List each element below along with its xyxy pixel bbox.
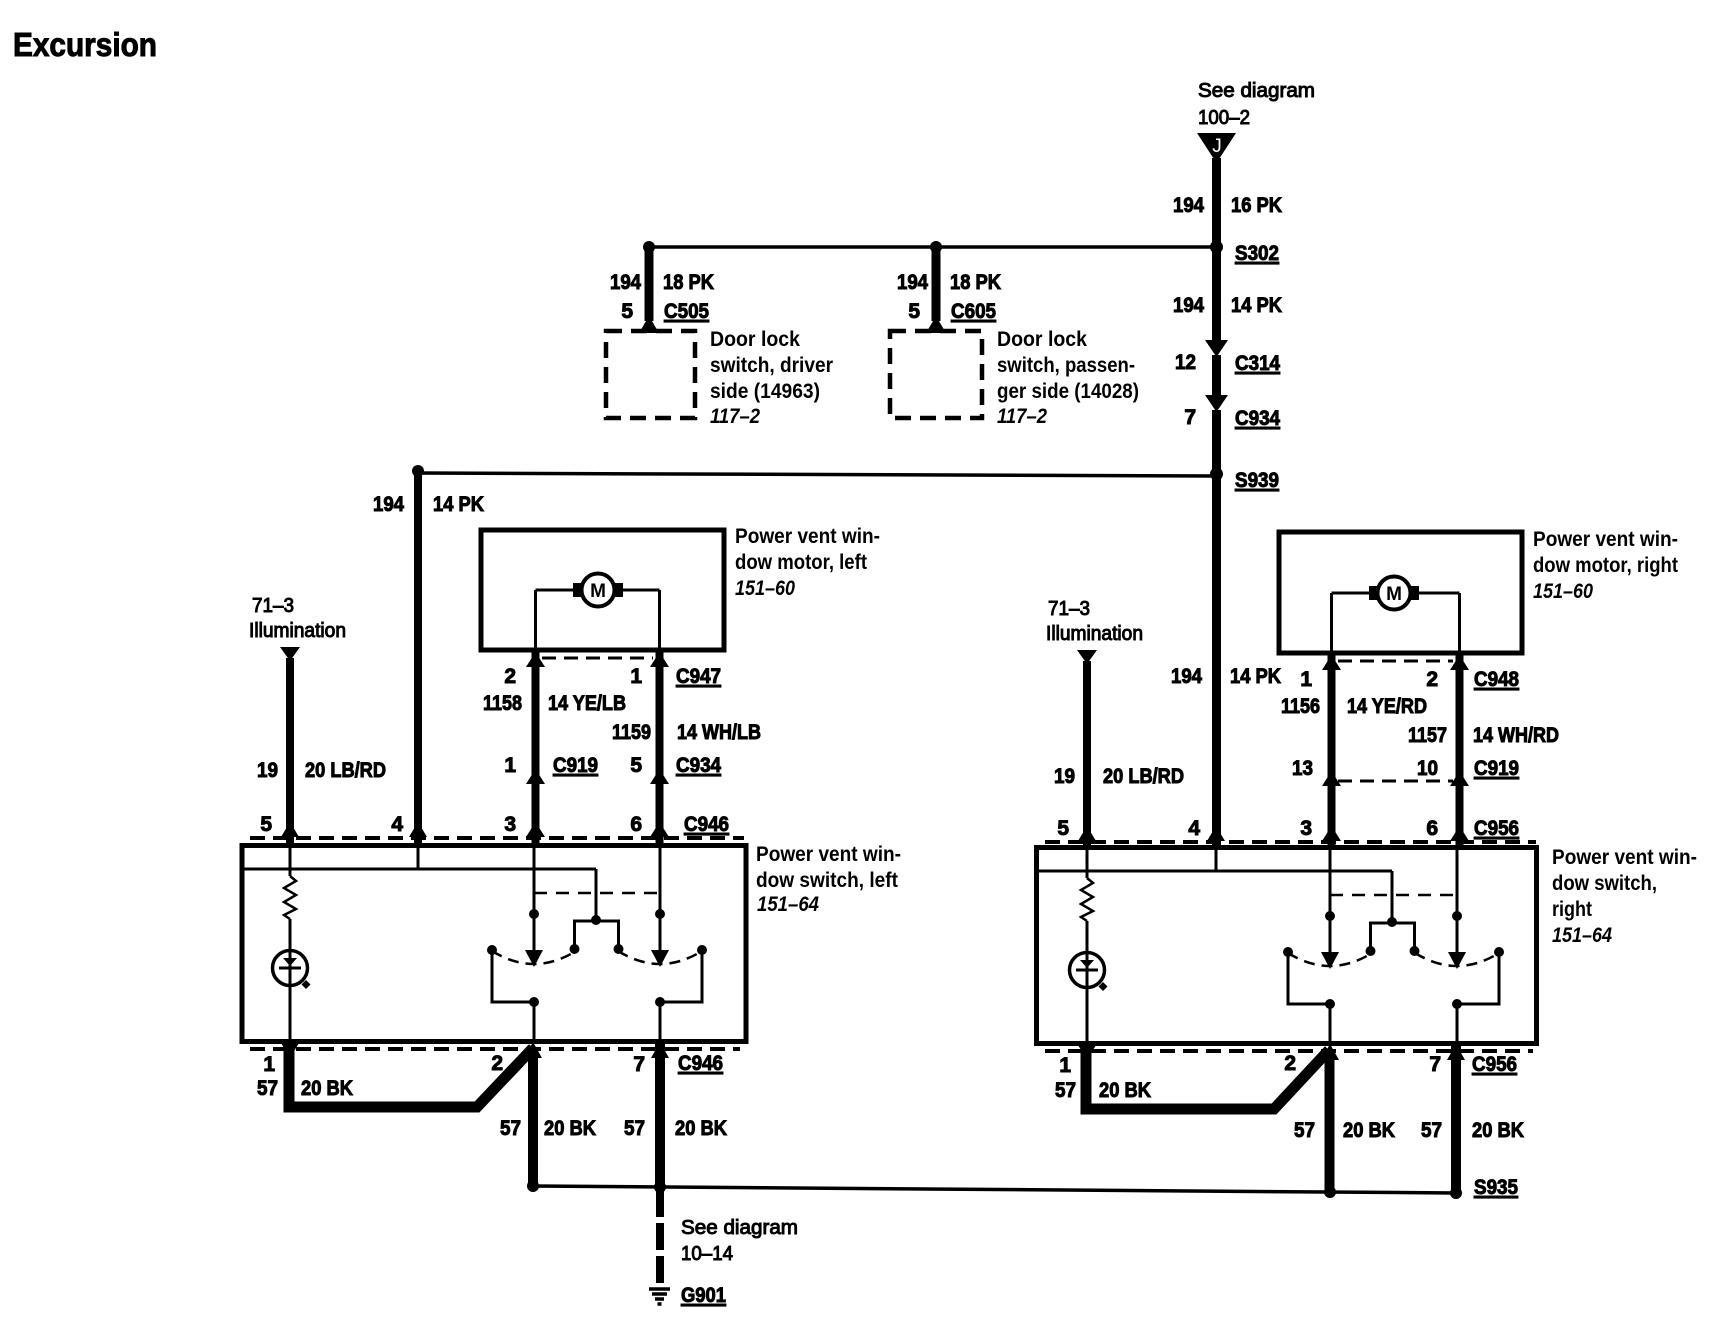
svg-text:20 BK: 20 BK <box>1099 1079 1151 1102</box>
svg-text:Power vent win-: Power vent win- <box>756 843 901 866</box>
svg-text:14 WH/RD: 14 WH/RD <box>1473 724 1559 747</box>
splice S939 <box>418 473 1216 476</box>
svg-text:57: 57 <box>1055 1079 1076 1102</box>
svg-text:20 LB/RD: 20 LB/RD <box>305 759 386 782</box>
svg-text:194: 194 <box>1173 194 1204 217</box>
mechanical link dashed <box>534 892 660 895</box>
svg-text:ger side (14028): ger side (14028) <box>997 380 1139 403</box>
wire trunk bottom to right switch pin 4 <box>1212 474 1221 849</box>
svg-text:18 PK: 18 PK <box>950 271 1001 294</box>
svg-text:194: 194 <box>1171 665 1202 688</box>
svg-text:dow motor, left: dow motor, left <box>735 551 867 574</box>
svg-text:151–64: 151–64 <box>757 893 819 916</box>
door lock switch, passenger side box <box>890 331 982 418</box>
svg-text:See diagram: See diagram <box>681 1217 798 1239</box>
svg-text:Power vent win-: Power vent win- <box>1552 846 1697 869</box>
power vent window switch, right box <box>1037 848 1537 1044</box>
svg-text:194: 194 <box>897 271 928 294</box>
wire 1159 motor left pin1 <box>656 650 664 845</box>
svg-text:57: 57 <box>500 1117 521 1140</box>
svg-text:1: 1 <box>1300 668 1312 691</box>
wire pin4 internal <box>244 868 596 871</box>
wire pin4 internal <box>1037 870 1392 873</box>
svg-text:117–2: 117–2 <box>710 405 760 428</box>
resistor left <box>289 843 292 876</box>
wire to G901 dashed <box>656 1190 664 1286</box>
svg-text:dow switch, left: dow switch, left <box>756 869 898 892</box>
svg-text:57: 57 <box>1294 1119 1315 1142</box>
svg-text:M: M <box>1386 584 1402 605</box>
motor M left <box>536 574 660 651</box>
connector C946 bottom row <box>250 1047 740 1051</box>
svg-text:side (14963): side (14963) <box>710 380 820 403</box>
svg-text:S939: S939 <box>1235 469 1279 492</box>
lamp right <box>1070 953 1105 988</box>
svg-text:1159: 1159 <box>612 721 651 744</box>
svg-text:switch, driver: switch, driver <box>710 354 833 377</box>
svg-text:3: 3 <box>504 813 516 836</box>
svg-text:14 PK: 14 PK <box>1230 665 1281 688</box>
wire 194 14 PK trunk mid <box>1212 247 1221 340</box>
switch contact arc left <box>1288 953 1372 966</box>
svg-text:14 PK: 14 PK <box>1231 294 1282 317</box>
wire pin6 arm <box>1456 845 1459 952</box>
svg-text:20 LB/RD: 20 LB/RD <box>1103 765 1184 788</box>
power vent window motor, right box <box>1279 532 1522 653</box>
svg-text:5: 5 <box>621 300 633 323</box>
svg-text:C314: C314 <box>1235 352 1280 375</box>
svg-text:dow motor, right: dow motor, right <box>1533 554 1678 577</box>
switch contact arc right <box>618 951 702 964</box>
svg-text:2: 2 <box>504 665 516 688</box>
wire 1158 motor left pin2 <box>532 650 540 845</box>
svg-text:20 BK: 20 BK <box>301 1077 353 1100</box>
svg-text:1158: 1158 <box>483 692 522 715</box>
connector C947 <box>526 652 545 667</box>
svg-text:Excursion: Excursion <box>13 26 157 63</box>
svg-text:Power vent win-: Power vent win- <box>1533 528 1678 551</box>
wire 57 20 BK bent left <box>289 1048 533 1107</box>
wire pin2 down right <box>1325 1050 1335 1192</box>
svg-text:20 BK: 20 BK <box>1343 1119 1395 1142</box>
svg-text:2: 2 <box>1426 668 1438 691</box>
svg-text:S302: S302 <box>1235 242 1279 265</box>
connector C919 right <box>1322 771 1341 786</box>
svg-text:C505: C505 <box>664 300 709 323</box>
svg-text:J: J <box>1212 136 1222 157</box>
wire 1157 motor right pin2 <box>1456 653 1464 849</box>
node common T <box>591 915 601 925</box>
svg-text:18 PK: 18 PK <box>663 271 714 294</box>
svg-text:right: right <box>1552 898 1592 921</box>
connector J (see diagram 100-2) <box>1197 80 1315 163</box>
svg-text:4: 4 <box>1188 817 1200 840</box>
svg-text:dow switch,: dow switch, <box>1552 872 1657 895</box>
svg-text:2: 2 <box>491 1052 503 1075</box>
contact brackets <box>1283 947 1293 957</box>
wire 194 16 PK trunk top <box>1212 158 1221 247</box>
svg-text:C919: C919 <box>553 754 598 777</box>
svg-text:1: 1 <box>630 665 642 688</box>
svg-text:6: 6 <box>1426 817 1438 840</box>
door lock switch, driver side box <box>606 331 695 418</box>
svg-text:Door lock: Door lock <box>997 328 1087 351</box>
svg-text:7: 7 <box>1184 406 1196 429</box>
svg-text:Illumination: Illumination <box>1046 623 1143 645</box>
wire pin6 arm <box>659 843 662 950</box>
svg-text:C956: C956 <box>1472 1053 1517 1076</box>
svg-text:S935: S935 <box>1474 1176 1518 1199</box>
svg-text:5: 5 <box>908 300 920 323</box>
svg-text:3: 3 <box>1300 817 1312 840</box>
svg-text:switch, passen-: switch, passen- <box>997 354 1135 377</box>
svg-text:1: 1 <box>504 754 516 777</box>
svg-text:14 PK: 14 PK <box>433 493 484 516</box>
svg-text:Door lock: Door lock <box>710 328 800 351</box>
wire stub to C605 <box>930 241 942 253</box>
svg-text:117–2: 117–2 <box>997 405 1047 428</box>
switch contact arc right <box>1415 953 1499 966</box>
node common T <box>1387 917 1397 927</box>
svg-text:5: 5 <box>630 754 642 777</box>
svg-text:C605: C605 <box>951 300 996 323</box>
mechanical link dashed <box>1330 894 1457 897</box>
connector C946 top row <box>250 836 744 840</box>
svg-text:7: 7 <box>633 1053 645 1076</box>
connector C919 left / C934 left <box>526 769 545 784</box>
svg-text:C934: C934 <box>676 754 721 777</box>
svg-text:7: 7 <box>1429 1053 1441 1076</box>
svg-text:12: 12 <box>1175 351 1196 374</box>
ground bus <box>533 1186 1456 1193</box>
svg-text:C946: C946 <box>678 1052 723 1075</box>
svg-text:5: 5 <box>1057 817 1069 840</box>
svg-text:19: 19 <box>257 759 278 782</box>
svg-text:C919: C919 <box>1474 757 1519 780</box>
lamp left <box>273 951 308 986</box>
svg-text:Power vent win-: Power vent win- <box>735 525 880 548</box>
wire stub to C505 <box>643 241 655 253</box>
svg-text:6: 6 <box>630 813 642 836</box>
wire pin7 down left <box>655 1043 665 1187</box>
wire pin2 down left <box>528 1049 538 1186</box>
svg-text:71–3: 71–3 <box>252 595 294 617</box>
svg-text:C946: C946 <box>684 813 729 836</box>
svg-text:5: 5 <box>260 813 272 836</box>
svg-text:10–14: 10–14 <box>681 1243 733 1265</box>
svg-text:14 WH/LB: 14 WH/LB <box>677 721 761 744</box>
svg-text:14 YE/LB: 14 YE/LB <box>548 692 626 715</box>
svg-text:57: 57 <box>257 1077 278 1100</box>
svg-text:C947: C947 <box>676 665 721 688</box>
svg-text:151–60: 151–60 <box>1533 580 1593 603</box>
switch right interior <box>1037 845 1504 1045</box>
svg-text:20 BK: 20 BK <box>1472 1119 1524 1142</box>
svg-text:1157: 1157 <box>1408 724 1447 747</box>
svg-text:1: 1 <box>263 1053 275 1076</box>
svg-text:13: 13 <box>1292 757 1313 780</box>
svg-text:C948: C948 <box>1474 668 1519 691</box>
svg-text:10: 10 <box>1417 757 1438 780</box>
power vent window motor, left box <box>481 530 724 650</box>
svg-text:57: 57 <box>624 1117 645 1140</box>
wire 57 20 BK bent right <box>1086 1050 1329 1109</box>
resistor right <box>1086 845 1089 878</box>
ground G901 <box>649 1289 670 1304</box>
motor M right <box>1332 577 1460 654</box>
svg-text:C934: C934 <box>1235 407 1280 430</box>
svg-text:See diagram: See diagram <box>1198 80 1315 102</box>
wire pin7 down right <box>1451 1045 1461 1193</box>
switch contact arc left <box>492 951 576 964</box>
svg-text:100–2: 100–2 <box>1198 107 1250 129</box>
svg-text:16 PK: 16 PK <box>1231 194 1282 217</box>
svg-text:1: 1 <box>1059 1054 1071 1077</box>
connector C956 top row <box>1045 840 1536 844</box>
wire 1156 motor right pin1 <box>1328 653 1336 849</box>
svg-text:G901: G901 <box>681 1284 726 1307</box>
wire 194 14 PK left branch <box>412 465 424 477</box>
svg-text:151–64: 151–64 <box>1552 924 1612 947</box>
power vent window switch, left box <box>242 846 746 1042</box>
connector C314 in-line arrow <box>1205 340 1228 357</box>
svg-text:2: 2 <box>1284 1052 1296 1075</box>
svg-text:151–60: 151–60 <box>735 577 795 600</box>
svg-text:194: 194 <box>610 271 641 294</box>
svg-text:20 BK: 20 BK <box>675 1117 727 1140</box>
svg-text:20 BK: 20 BK <box>544 1117 596 1140</box>
switch left interior <box>244 843 707 1043</box>
wire pin3 arm <box>1329 845 1332 952</box>
connector C934 in-line arrow <box>1205 395 1228 412</box>
svg-text:194: 194 <box>373 493 404 516</box>
svg-text:194: 194 <box>1173 294 1204 317</box>
svg-text:14 YE/RD: 14 YE/RD <box>1347 695 1427 718</box>
contact brackets <box>487 945 497 955</box>
splice S302 <box>649 245 1216 249</box>
connector C956 bottom row <box>1045 1049 1533 1053</box>
svg-text:57: 57 <box>1421 1119 1442 1142</box>
svg-text:M: M <box>590 581 606 602</box>
svg-text:71–3: 71–3 <box>1048 598 1090 620</box>
connector C948 <box>1322 655 1341 670</box>
svg-text:1156: 1156 <box>1281 695 1320 718</box>
svg-text:19: 19 <box>1054 765 1075 788</box>
svg-text:C956: C956 <box>1474 817 1519 840</box>
wire pin3 arm <box>533 843 536 950</box>
svg-text:Illumination: Illumination <box>249 620 346 642</box>
svg-text:4: 4 <box>391 813 403 836</box>
